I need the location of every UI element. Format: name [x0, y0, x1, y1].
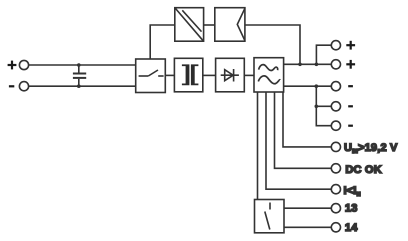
- wire K1 to terminal 14: [284, 226, 331, 228]
- label + (input plus): [8, 61, 17, 70]
- svg-text:14: 14: [345, 222, 358, 234]
- output terminal - (second): [331, 102, 340, 111]
- input terminal - (left): [19, 82, 28, 91]
- DC/DC converter U1 (top box with double diagonal): [175, 8, 204, 42]
- wire switch box to transformer: [165, 74, 174, 76]
- - output bus from U2: [284, 85, 332, 87]
- signal terminal Uin: [331, 142, 340, 151]
- signal terminal 13: [331, 204, 340, 213]
- + output bus from U2: [284, 63, 332, 65]
- signal wire 1: U2 to Uin terminal: [283, 92, 331, 147]
- battery / energy storage module B1: [215, 8, 245, 42]
- junction node on - rail at capacitor: [77, 84, 81, 88]
- wire switch box up to top bus: [150, 25, 175, 59]
- label - (output 1): [348, 85, 353, 87]
- label - (output 2): [348, 105, 353, 107]
- svg-text:UIN>19,2 V: UIN>19,2 V: [344, 142, 398, 155]
- transformer T1: [174, 58, 202, 92]
- label + (output 1): [346, 41, 355, 50]
- signal wire 3: U2 to I<In terminal: [266, 92, 331, 189]
- input terminal + (left): [19, 60, 28, 69]
- junction node: - branch 2: [315, 105, 319, 109]
- junction node: + branch: [315, 63, 319, 67]
- wire U1 to battery module: [204, 24, 215, 26]
- label + (output 2): [346, 60, 355, 69]
- wire K1 to terminal 13: [284, 207, 331, 209]
- relay contact K1 (floating signal contact): [255, 200, 285, 233]
- switch box S1 (inrush/input switch): [136, 59, 166, 93]
- wire to second - terminal: [316, 105, 331, 107]
- label - (output 3): [348, 125, 353, 127]
- wire transformer to diode: [203, 74, 216, 76]
- signal wire 4: U2 down to relay K1: [257, 92, 259, 200]
- output terminal - (third): [331, 121, 340, 130]
- svg-text:I<IN: I<IN: [344, 185, 361, 198]
- wire input + to switch box: [29, 64, 136, 66]
- rectifier diode D1: [216, 58, 245, 92]
- signal terminal I<In: [331, 185, 340, 194]
- output terminal + (second): [331, 60, 340, 69]
- junction node on + rail at capacitor: [77, 63, 81, 67]
- wire branch up to first + terminal: [316, 45, 331, 64]
- wire - bus down to second - terminal: [315, 86, 317, 106]
- signal terminal 14: [331, 223, 340, 232]
- junction node: - branch 1: [315, 84, 319, 88]
- wire - bus down to third - terminal: [316, 106, 331, 125]
- svg-text:13: 13: [345, 202, 358, 214]
- wire diode to output stage: [244, 74, 254, 76]
- output terminal - (first): [331, 82, 340, 91]
- output terminal + (first): [331, 41, 340, 50]
- signal terminal DC OK: [331, 164, 340, 173]
- output stage U2 (regulator box with two sine waves): [254, 58, 284, 92]
- wire input - to switch box: [29, 85, 136, 87]
- wire battery module to + output bus (top right): [245, 25, 300, 64]
- svg-text:DC OK: DC OK: [345, 164, 381, 176]
- label - (input minus): [9, 85, 14, 87]
- signal wire 2: U2 to DC OK terminal: [275, 92, 332, 168]
- capacitor C1: [73, 65, 86, 86]
- junction node: top feed joins + bus: [298, 63, 302, 67]
